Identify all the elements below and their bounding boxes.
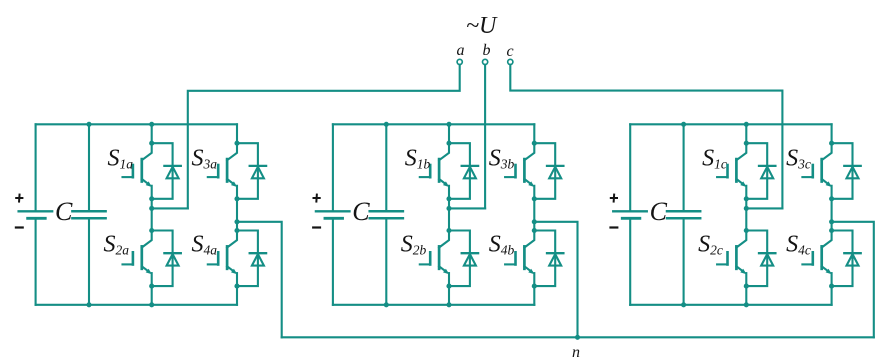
IGBT switch S4b with freewheeling diode bbox=[505, 228, 563, 289]
svg-text:S2b: S2b bbox=[401, 232, 427, 258]
wire: phase tap cell c bbox=[746, 207, 782, 209]
battery (DC source) cell a bbox=[35, 124, 37, 210]
wire: left leg cell b bbox=[448, 124, 450, 143]
junction: capacitor bottom bbox=[384, 302, 389, 307]
IGBT switch S1b with freewheeling diode bbox=[420, 141, 478, 202]
label − bbox=[312, 226, 321, 228]
wire: bottom DC rail cell b bbox=[333, 304, 534, 306]
junction: phase tap node bbox=[744, 206, 749, 211]
svg-text:b: b bbox=[483, 42, 491, 59]
wire: top DC rail cell c bbox=[630, 123, 831, 125]
wire: phase tap cell a bbox=[152, 207, 188, 209]
svg-text:S2c: S2c bbox=[698, 232, 723, 258]
svg-text:~U: ~U bbox=[466, 13, 498, 39]
IGBT switch S2b with freewheeling diode bbox=[420, 228, 478, 289]
label − bbox=[609, 226, 618, 228]
wire: output tap to neutral cell b bbox=[534, 222, 577, 337]
wire: bottom DC rail cell a bbox=[36, 304, 237, 306]
IGBT switch S2a with freewheeling diode bbox=[123, 228, 181, 289]
IGBT switch S3b with freewheeling diode bbox=[505, 141, 563, 202]
svg-text:S1b: S1b bbox=[405, 146, 431, 172]
svg-text:C: C bbox=[55, 197, 73, 226]
svg-text:S4b: S4b bbox=[489, 232, 515, 258]
wire: right leg cell c bbox=[831, 124, 833, 143]
svg-text:c: c bbox=[507, 43, 514, 60]
wire: phase b drop to cell 2 bbox=[484, 65, 486, 209]
wire: phase c run to cell 3 bbox=[510, 65, 782, 209]
IGBT switch S1a with freewheeling diode bbox=[123, 141, 181, 202]
wire: bottom DC rail cell c bbox=[630, 304, 831, 306]
wire: neutral bus n bbox=[282, 336, 874, 338]
capacitor C cell b bbox=[385, 124, 387, 210]
wire: right leg cell b bbox=[533, 124, 535, 143]
svg-text:n: n bbox=[572, 344, 580, 361]
svg-text:S1c: S1c bbox=[702, 146, 727, 172]
wire: phase tap cell b bbox=[449, 207, 485, 209]
junction: left leg top bbox=[744, 122, 749, 127]
battery (DC source) cell c bbox=[629, 124, 631, 210]
wire: top DC rail cell b bbox=[333, 123, 534, 125]
capacitor C cell a bbox=[88, 124, 90, 210]
junction: output tap node bbox=[234, 219, 239, 224]
wire: left leg cell a bbox=[151, 124, 153, 143]
junction: neutral node n bbox=[575, 335, 580, 340]
IGBT switch S3a with freewheeling diode bbox=[208, 141, 266, 202]
junction: phase tap node bbox=[149, 206, 154, 211]
junction: capacitor bottom bbox=[681, 302, 686, 307]
junction: capacitor top bbox=[681, 122, 686, 127]
junction: left leg top bbox=[446, 122, 451, 127]
junction: left leg bottom bbox=[149, 302, 154, 307]
wire: output tap to neutral cell c bbox=[832, 222, 874, 337]
terminal c bbox=[508, 59, 513, 64]
svg-text:S4a: S4a bbox=[192, 232, 218, 258]
junction: capacitor bottom bbox=[86, 302, 91, 307]
junction: output tap node bbox=[829, 219, 834, 224]
svg-text:S1a: S1a bbox=[108, 146, 134, 172]
label + bbox=[313, 194, 321, 203]
junction: left leg bottom bbox=[446, 302, 451, 307]
junction: output tap node bbox=[532, 219, 537, 224]
terminal b bbox=[483, 59, 488, 64]
battery (DC source) cell b bbox=[332, 124, 334, 210]
junction: capacitor top bbox=[86, 122, 91, 127]
wire: left leg cell c bbox=[745, 124, 747, 143]
wire: right leg cell a bbox=[236, 124, 238, 143]
label − bbox=[15, 226, 24, 228]
svg-text:S3c: S3c bbox=[786, 146, 811, 172]
svg-text:a: a bbox=[457, 42, 465, 59]
wire: top DC rail cell a bbox=[36, 123, 237, 125]
junction: phase tap node bbox=[446, 206, 451, 211]
junction: left leg top bbox=[149, 122, 154, 127]
svg-text:S3a: S3a bbox=[192, 146, 218, 172]
svg-text:C: C bbox=[352, 197, 370, 226]
IGBT switch S4c with freewheeling diode bbox=[802, 228, 860, 289]
label + bbox=[610, 194, 618, 203]
wire: output tap to neutral cell a bbox=[237, 222, 282, 337]
junction: left leg bottom bbox=[744, 302, 749, 307]
svg-text:S3b: S3b bbox=[489, 146, 515, 172]
svg-text:S2a: S2a bbox=[104, 232, 130, 258]
svg-text:C: C bbox=[650, 197, 668, 226]
IGBT switch S3c with freewheeling diode bbox=[802, 141, 860, 202]
label + bbox=[15, 194, 23, 203]
IGBT switch S4a with freewheeling diode bbox=[208, 228, 266, 289]
capacitor C cell c bbox=[683, 124, 685, 210]
terminal a bbox=[457, 59, 462, 64]
junction: capacitor top bbox=[384, 122, 389, 127]
wire: phase a run to cell 1 bbox=[188, 65, 460, 209]
IGBT switch S2c with freewheeling diode bbox=[717, 228, 775, 289]
svg-text:S4c: S4c bbox=[786, 232, 811, 258]
IGBT switch S1c with freewheeling diode bbox=[717, 141, 775, 202]
